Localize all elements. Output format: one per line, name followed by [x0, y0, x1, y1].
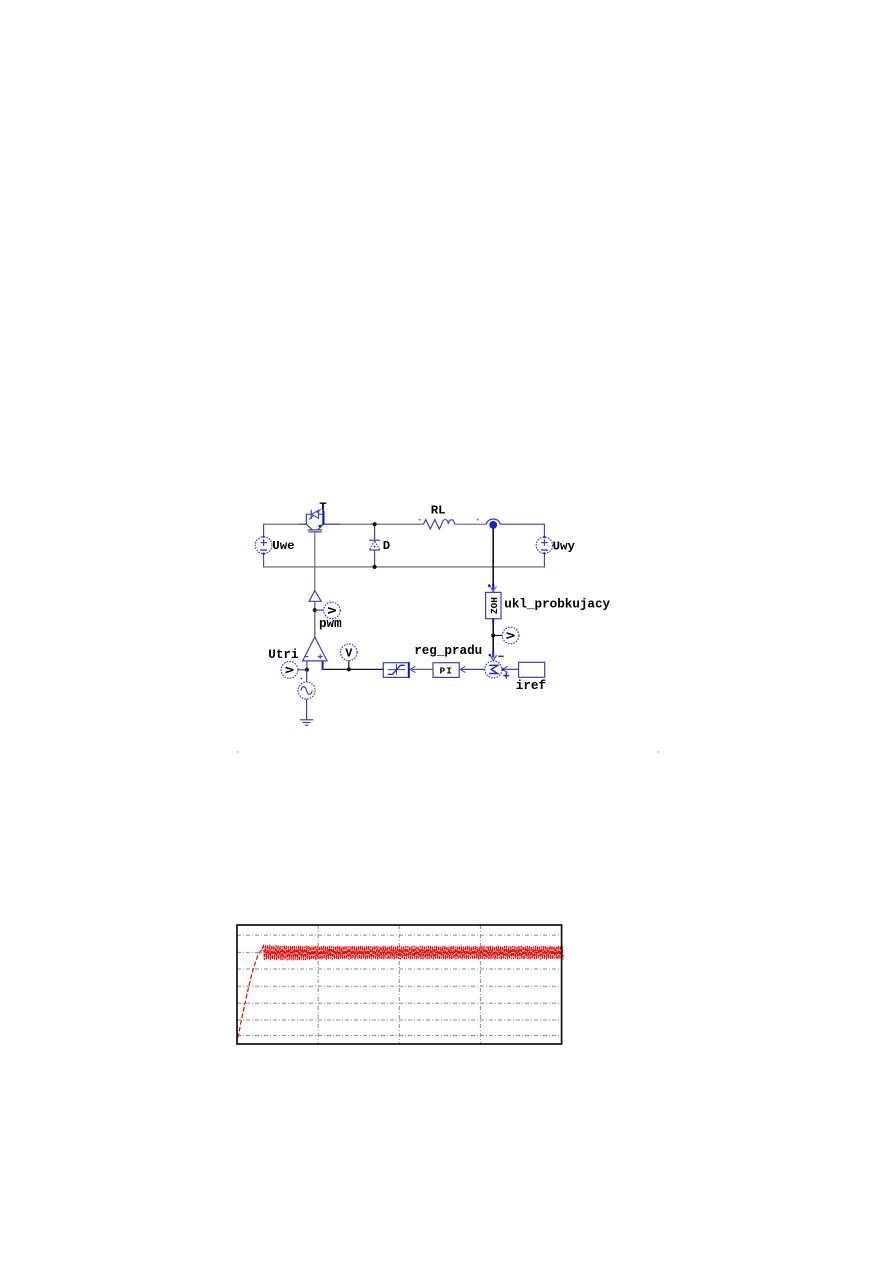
junction dot pwm	[313, 608, 317, 612]
wire top middle blue stub	[323, 523, 340, 525]
polarity tick	[301, 678, 303, 679]
junction dot diode bottom	[373, 565, 377, 569]
node dot	[489, 521, 497, 529]
svg-text:V: V	[285, 666, 298, 673]
buffer triangle	[309, 591, 321, 602]
svg-text:ukl_probkujacy: ukl_probkujacy	[504, 598, 610, 612]
svg-text:V: V	[327, 607, 340, 614]
voltmeter V comparator input	[341, 644, 358, 669]
wire hop arc over node	[486, 519, 500, 524]
arrowhead into sum	[490, 655, 497, 660]
block limiter	[383, 662, 409, 678]
wire iref to sum	[504, 668, 519, 670]
svg-text:iref: iref	[516, 679, 546, 693]
junction dot below voltmeter	[347, 667, 351, 671]
wire junction to sine source	[306, 670, 308, 682]
summing junction	[485, 661, 502, 678]
stray dot right	[657, 751, 659, 753]
arrowhead into limiter	[410, 666, 415, 672]
wire gate vertical	[314, 532, 316, 591]
wire after RL	[455, 523, 487, 525]
source Uwy	[536, 536, 552, 555]
arrowhead into PI	[460, 666, 465, 672]
wire top left horizontal	[264, 523, 307, 525]
wire bottom horizontal	[263, 566, 545, 568]
svg-text:PI: PI	[439, 666, 453, 677]
svg-text:pwm: pwm	[319, 617, 342, 631]
wire ZOH to sum	[492, 619, 494, 653]
waveform ripple	[262, 945, 563, 961]
svg-text:V: V	[506, 632, 519, 639]
wire right vertical lower	[543, 553, 545, 567]
plot gridlines vertical	[318, 925, 480, 1044]
arrowhead into sum right	[502, 666, 507, 672]
wire comparator plus stub	[322, 661, 324, 670]
waveform rise	[238, 949, 262, 1038]
junction dot diode top	[373, 522, 377, 526]
wire left vertical upper	[263, 524, 265, 537]
wire left vertical lower	[263, 554, 265, 568]
arrowhead into ZOH	[490, 586, 497, 591]
svg-text:T: T	[319, 501, 327, 515]
wire node to ZOH	[492, 529, 494, 586]
junction dot feedback	[491, 634, 495, 638]
wire right vertical upper	[543, 524, 545, 538]
voltmeter V feedback	[502, 627, 519, 644]
plot gridlines horizontal	[237, 935, 562, 1035]
wire top middle horizontal	[323, 523, 423, 525]
stub to pwm voltmeter	[315, 609, 324, 611]
svg-text:ZOH: ZOH	[489, 597, 500, 614]
voltmeter V pwm	[324, 602, 341, 619]
blue segment into sum	[492, 651, 494, 658]
source Uwe	[255, 536, 272, 555]
ground	[300, 720, 313, 725]
svg-text:Uwe: Uwe	[272, 539, 294, 553]
block PI	[433, 663, 459, 678]
stray dot left	[237, 751, 239, 753]
svg-text:Utri: Utri	[268, 648, 299, 662]
wire sine to ground	[306, 699, 308, 720]
block iref	[519, 662, 545, 677]
junction dot comparator minus	[305, 668, 309, 672]
comparator op-amp	[303, 637, 328, 661]
minus sign at sum	[498, 655, 503, 657]
block ZOH	[486, 592, 501, 618]
sine source Utri	[298, 682, 315, 699]
wire sum to PI	[461, 668, 485, 670]
svg-text:V: V	[345, 648, 352, 661]
wire comparator minus stub	[306, 661, 308, 670]
plus sign at sum	[503, 673, 509, 679]
stub to voltmeter	[493, 635, 502, 637]
inductor RL	[419, 519, 479, 529]
wire buffer to comparator	[314, 601, 316, 637]
diode D	[369, 524, 380, 567]
wire limiter to comparator	[322, 668, 383, 670]
svg-text:Uwy: Uwy	[553, 540, 576, 554]
wire PI to limiter	[412, 668, 433, 670]
wire top left blue stub	[299, 523, 307, 525]
svg-text:D: D	[383, 539, 390, 553]
transistor T	[306, 509, 323, 532]
voltmeter V triangle source	[281, 662, 307, 679]
svg-text:reg_pradu: reg_pradu	[414, 644, 482, 658]
wire node to right corner	[500, 523, 544, 525]
plot border	[237, 925, 562, 1044]
svg-text:RL: RL	[431, 504, 446, 518]
